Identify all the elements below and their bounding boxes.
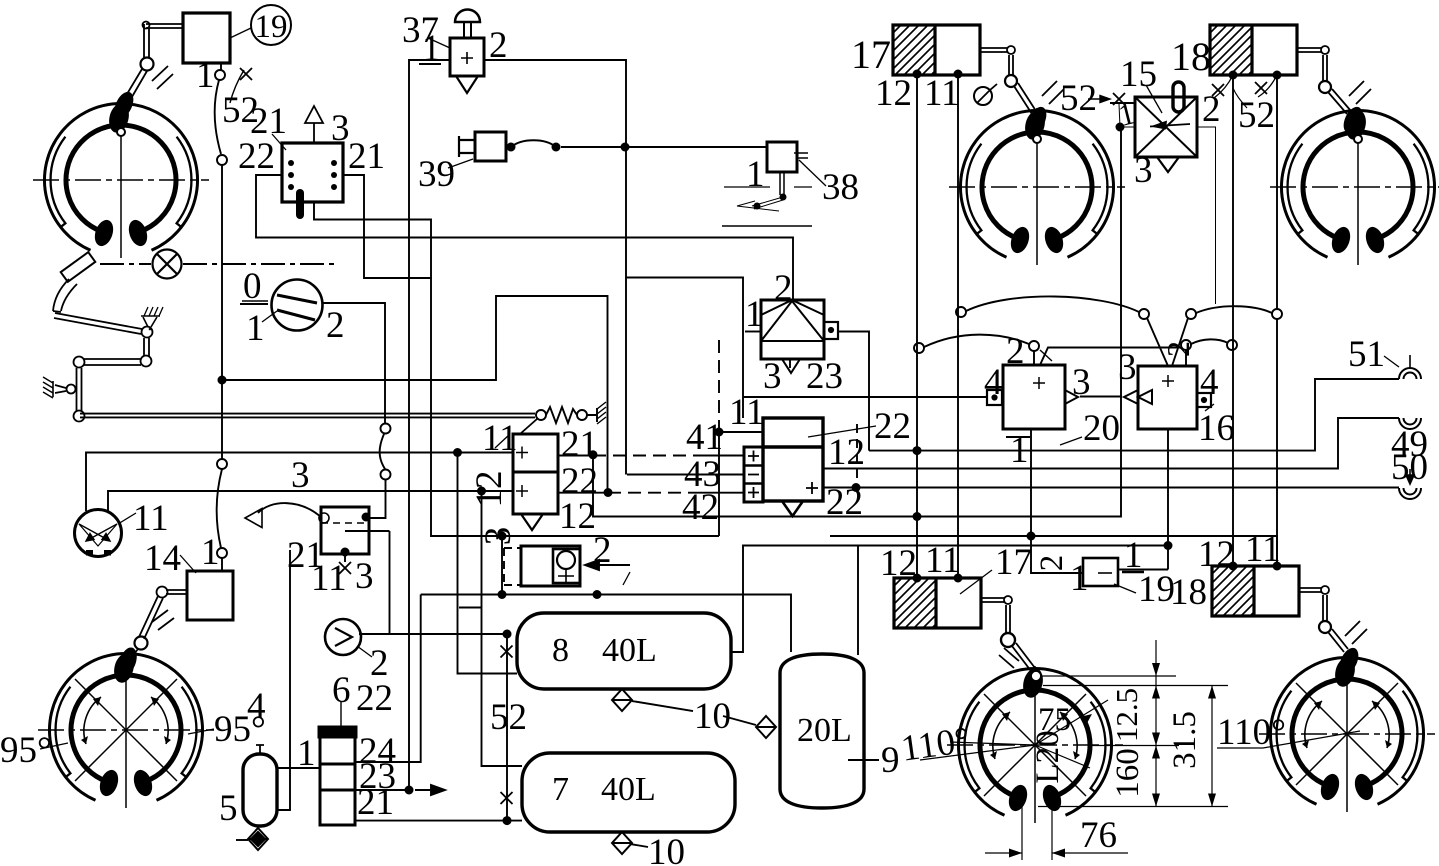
svg-text:1: 1 (297, 733, 316, 774)
svg-text:19: 19 (255, 9, 288, 45)
svg-text:1: 1 (201, 532, 220, 573)
svg-text:4: 4 (1200, 362, 1219, 403)
svg-text:22: 22 (874, 406, 911, 447)
svg-text:22: 22 (238, 136, 275, 177)
svg-text:3: 3 (1072, 362, 1091, 403)
svg-text:6: 6 (332, 670, 351, 711)
svg-text:11: 11 (1245, 529, 1281, 570)
svg-text:5: 5 (219, 788, 238, 829)
svg-text:52: 52 (490, 697, 527, 738)
svg-text:8: 8 (552, 632, 569, 669)
svg-text:12: 12 (469, 471, 510, 508)
svg-text:51: 51 (1348, 334, 1385, 375)
svg-text:1: 1 (746, 154, 765, 195)
svg-text:11: 11 (729, 392, 765, 433)
svg-text:18: 18 (1171, 34, 1211, 79)
svg-text:12: 12 (875, 73, 912, 114)
svg-text:11: 11 (924, 73, 960, 114)
svg-text:2: 2 (326, 305, 345, 346)
svg-text:22: 22 (826, 482, 863, 523)
svg-text:7: 7 (552, 771, 569, 808)
svg-text:11: 11 (925, 540, 961, 581)
svg-text:0: 0 (243, 266, 262, 307)
svg-text:10: 10 (648, 832, 685, 866)
svg-text:12: 12 (828, 432, 865, 473)
svg-text:17: 17 (851, 32, 891, 77)
svg-text:1: 1 (422, 28, 441, 69)
svg-text:41: 41 (686, 417, 723, 458)
svg-text:12: 12 (559, 496, 596, 537)
svg-text:12: 12 (880, 543, 917, 584)
svg-text:160: 160 (1110, 748, 1146, 798)
svg-text:11: 11 (311, 558, 347, 599)
svg-text:20: 20 (1083, 408, 1120, 449)
svg-text:95°: 95° (0, 730, 52, 771)
svg-text:15: 15 (1120, 54, 1157, 95)
svg-text:1: 1 (1010, 430, 1029, 471)
svg-text:2: 2 (1006, 331, 1025, 372)
svg-text:2: 2 (1160, 341, 1196, 357)
svg-text:2: 2 (1202, 89, 1221, 130)
svg-text:9: 9 (881, 740, 900, 781)
svg-text:110°: 110° (1217, 712, 1286, 753)
svg-text:1: 1 (246, 308, 265, 349)
svg-text:10: 10 (694, 696, 731, 737)
svg-text:42: 42 (682, 487, 719, 528)
svg-text:2: 2 (1034, 555, 1070, 572)
svg-text:76: 76 (1080, 815, 1117, 856)
svg-text:11: 11 (133, 498, 169, 539)
svg-text:17: 17 (995, 542, 1032, 583)
svg-text:2: 2 (489, 25, 508, 66)
svg-text:3: 3 (1134, 150, 1153, 191)
svg-text:38: 38 (822, 167, 859, 208)
svg-text:21: 21 (561, 424, 598, 465)
svg-text:2: 2 (774, 268, 793, 309)
svg-text:3: 3 (355, 556, 374, 597)
svg-text:14: 14 (144, 538, 181, 579)
svg-text:3: 3 (291, 455, 310, 496)
svg-text:3: 3 (763, 356, 782, 397)
svg-text:1: 1 (196, 55, 215, 96)
svg-text:22: 22 (356, 678, 393, 719)
svg-text:L20: L20 (1030, 730, 1066, 783)
svg-text:52: 52 (1060, 78, 1097, 119)
svg-text:16: 16 (1198, 408, 1235, 449)
svg-text:40L: 40L (601, 771, 656, 808)
svg-text:4: 4 (984, 362, 1003, 403)
svg-text:23: 23 (806, 356, 843, 397)
svg-text:12: 12 (1198, 534, 1235, 575)
svg-text:31.5: 31.5 (1167, 711, 1203, 769)
svg-text:18: 18 (1170, 572, 1207, 613)
svg-text:3: 3 (331, 108, 350, 149)
svg-text:20L: 20L (797, 712, 852, 749)
svg-text:39: 39 (418, 154, 455, 195)
svg-text:12.5: 12.5 (1109, 688, 1144, 742)
svg-text:95°: 95° (214, 709, 266, 750)
svg-text:3: 3 (478, 527, 519, 546)
svg-text:21: 21 (348, 136, 385, 177)
svg-text:1: 1 (745, 294, 764, 335)
svg-text:1: 1 (1070, 558, 1089, 599)
svg-text:21: 21 (357, 782, 394, 823)
svg-text:3: 3 (1118, 347, 1137, 388)
svg-text:52: 52 (1238, 95, 1275, 136)
svg-text:11: 11 (482, 418, 518, 459)
svg-text:40L: 40L (602, 632, 657, 669)
